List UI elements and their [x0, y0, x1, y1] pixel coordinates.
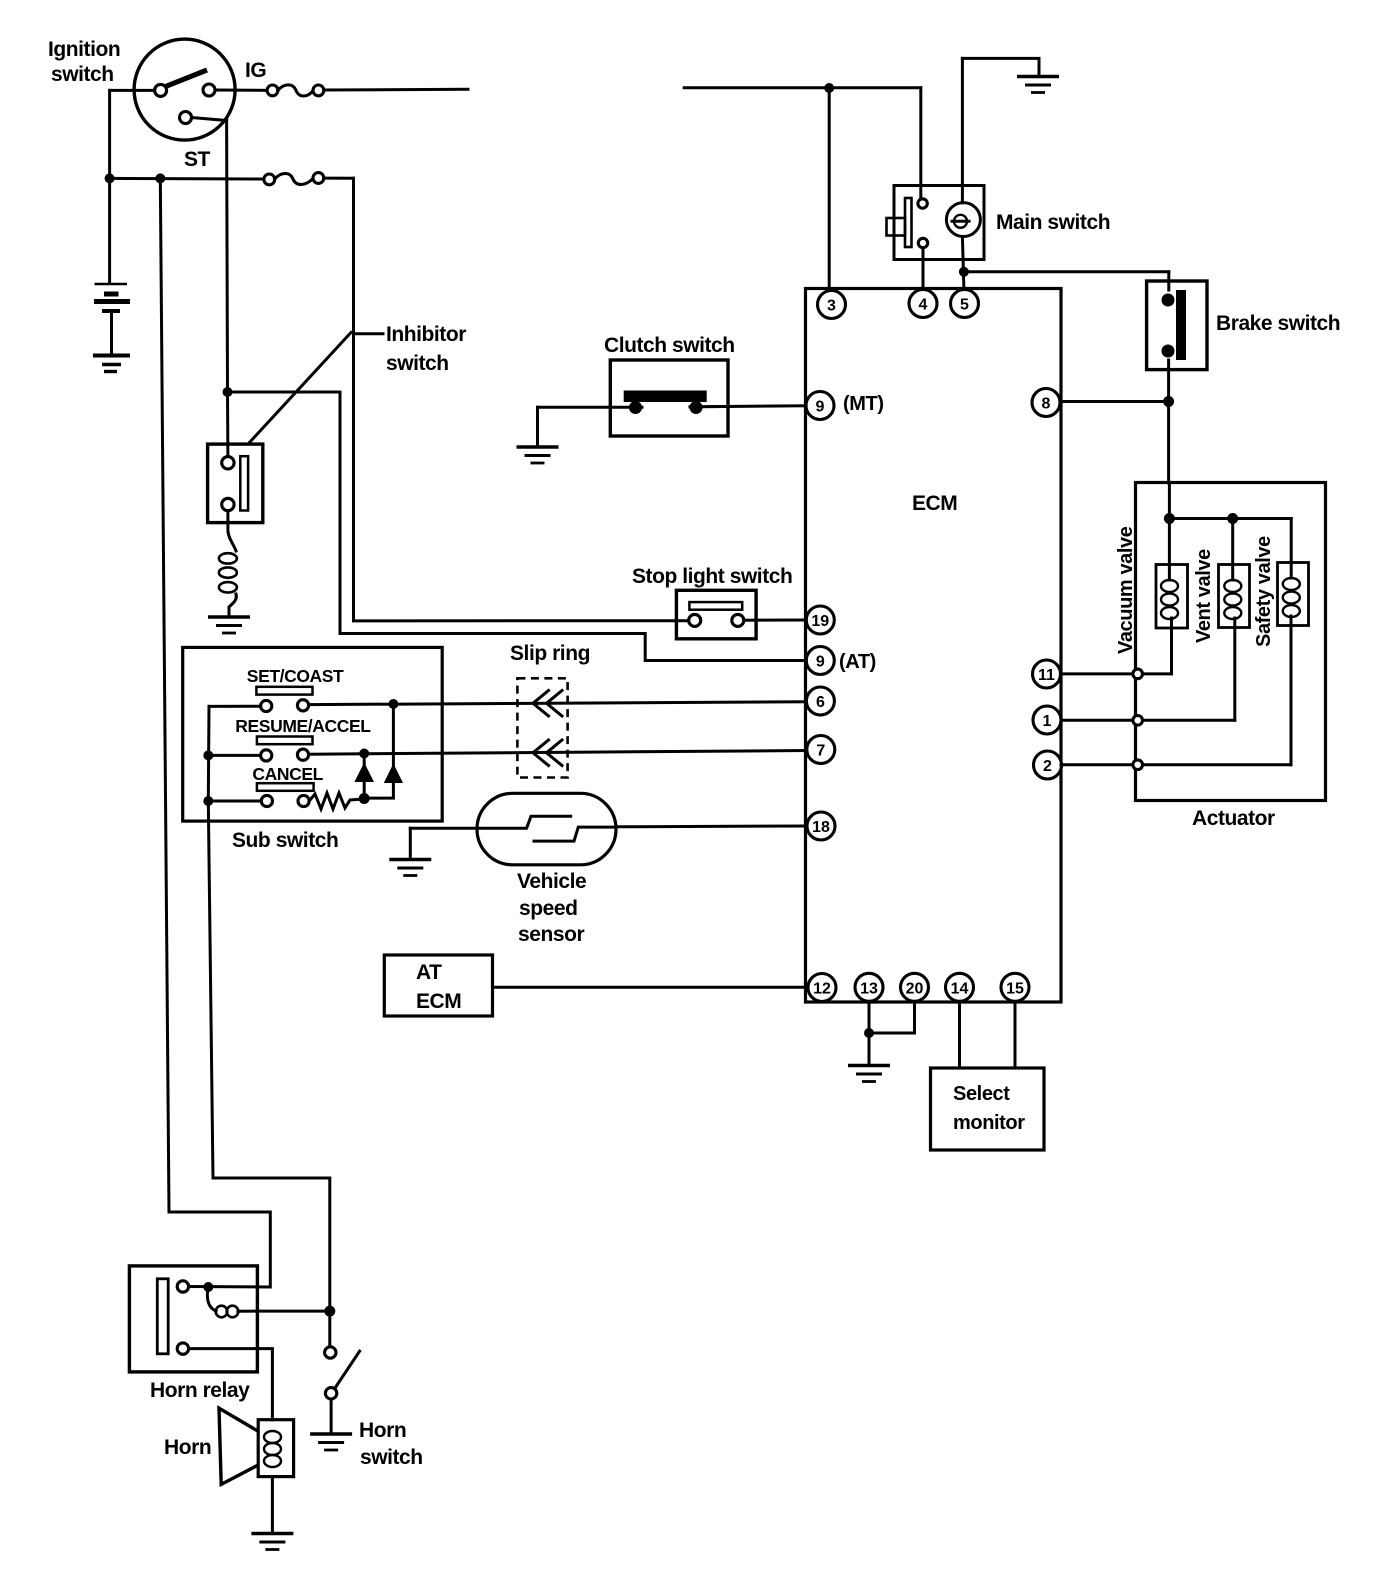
svg-text:(AT): (AT) — [839, 651, 876, 673]
svg-text:switch: switch — [51, 63, 114, 86]
svg-text:ECM: ECM — [912, 492, 957, 515]
svg-text:6: 6 — [816, 694, 825, 711]
svg-text:1: 1 — [1043, 713, 1052, 730]
svg-text:switch: switch — [386, 352, 449, 375]
svg-text:13: 13 — [860, 980, 878, 997]
svg-text:Vehicle: Vehicle — [517, 870, 586, 893]
svg-text:switch: switch — [360, 1446, 423, 1469]
svg-text:4: 4 — [919, 297, 928, 314]
svg-text:8: 8 — [1042, 396, 1051, 413]
svg-text:IG: IG — [245, 59, 266, 82]
svg-text:15: 15 — [1006, 980, 1024, 997]
svg-text:ST: ST — [184, 148, 211, 171]
svg-text:speed: speed — [519, 897, 577, 920]
svg-text:sensor: sensor — [518, 923, 584, 946]
svg-text:12: 12 — [813, 981, 831, 998]
svg-text:Select: Select — [953, 1083, 1010, 1105]
svg-text:9: 9 — [816, 399, 825, 416]
svg-text:(MT): (MT) — [843, 393, 884, 415]
svg-text:Slip ring: Slip ring — [510, 642, 590, 665]
svg-text:Horn: Horn — [164, 1436, 211, 1459]
svg-text:Vent valve: Vent valve — [1193, 549, 1215, 643]
svg-text:Stop light switch: Stop light switch — [632, 565, 792, 588]
svg-text:Horn: Horn — [359, 1419, 406, 1442]
svg-text:Brake switch: Brake switch — [1216, 312, 1340, 335]
svg-text:Horn relay: Horn relay — [150, 1379, 250, 1402]
svg-text:Actuator: Actuator — [1192, 807, 1275, 830]
svg-text:19: 19 — [811, 613, 829, 630]
svg-text:Main switch: Main switch — [996, 211, 1110, 234]
svg-text:RESUME/ACCEL: RESUME/ACCEL — [235, 716, 371, 736]
svg-text:20: 20 — [906, 980, 924, 997]
svg-text:Inhibitor: Inhibitor — [386, 323, 466, 346]
svg-text:AT: AT — [416, 961, 442, 984]
svg-text:Ignition: Ignition — [48, 38, 120, 61]
svg-text:3: 3 — [827, 298, 836, 315]
svg-text:SET/COAST: SET/COAST — [247, 666, 344, 686]
svg-text:2: 2 — [1043, 758, 1052, 775]
svg-text:5: 5 — [960, 297, 969, 314]
svg-text:18: 18 — [812, 819, 830, 836]
svg-text:ECM: ECM — [416, 990, 461, 1013]
svg-text:11: 11 — [1038, 667, 1055, 684]
svg-text:Clutch switch: Clutch switch — [604, 334, 735, 357]
svg-text:7: 7 — [816, 743, 825, 760]
svg-text:9: 9 — [816, 654, 825, 671]
svg-text:monitor: monitor — [953, 1112, 1025, 1134]
svg-text:Vacuum valve: Vacuum valve — [1115, 526, 1137, 654]
svg-text:14: 14 — [951, 980, 969, 997]
svg-text:Safety valve: Safety valve — [1253, 536, 1275, 647]
svg-text:Sub switch: Sub switch — [232, 829, 338, 852]
svg-text:CANCEL: CANCEL — [252, 764, 323, 784]
